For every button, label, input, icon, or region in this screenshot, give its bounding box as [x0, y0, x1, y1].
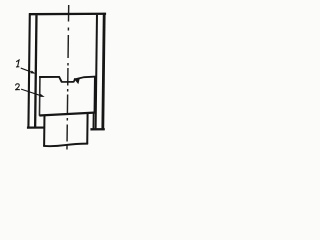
- holder left inner wall: [35, 15, 36, 128]
- die block left edge: [38, 76, 40, 115]
- leader line 1: [21, 68, 34, 73]
- die block right edge: [93, 77, 95, 114]
- shank bottom face: [43, 144, 88, 147]
- die notch bottom: [61, 81, 73, 83]
- holder bore right hole edge: [92, 113, 94, 129]
- die notch left wall: [59, 76, 62, 82]
- leader line 2: [21, 89, 42, 96]
- die block top face left segment: [39, 76, 59, 78]
- holder top face: [29, 13, 106, 16]
- die wedge mark: [74, 79, 80, 84]
- label 2: [15, 84, 20, 90]
- centerline: [67, 5, 69, 150]
- die block top face right segment: [75, 77, 97, 80]
- shank right edge: [86, 113, 88, 144]
- label 1: [16, 60, 19, 67]
- holder right inner wall: [96, 15, 97, 129]
- holder bottom left face: [27, 126, 45, 128]
- arrowhead 1: [30, 71, 35, 74]
- die block bottom step: [39, 112, 96, 115]
- holder left outer wall: [28, 13, 29, 128]
- die notch right wall: [74, 78, 75, 82]
- arrowhead 2: [39, 94, 44, 97]
- shank left edge: [43, 115, 45, 146]
- holder right outer wall: [103, 13, 104, 130]
- holder bottom right face: [90, 128, 104, 130]
